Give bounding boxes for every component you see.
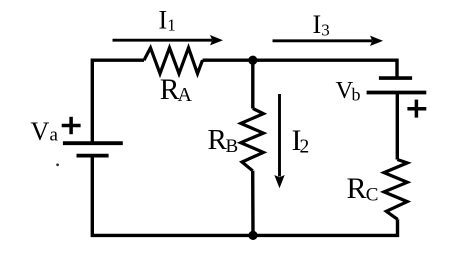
polarity + of V_a — [62, 117, 81, 134]
resistor R_A — [144, 48, 203, 74]
current arrow I2 — [274, 94, 284, 188]
wire: right vertical from V_b to R_C — [396, 93, 399, 160]
wire: top from R_A to right corner — [203, 60, 398, 78]
polarity + of V_b — [407, 100, 426, 118]
battery V_a negative plate (short) — [77, 154, 109, 158]
label I2 — [292, 124, 310, 157]
resistor R_C — [384, 160, 407, 220]
label V_a — [31, 117, 59, 146]
node A: top junction dot — [248, 56, 257, 65]
node B: bottom junction dot — [248, 231, 257, 240]
stray ink dot — [56, 163, 59, 166]
label R_C — [347, 172, 379, 206]
battery V_b positive plate (long) — [367, 91, 427, 95]
svg-text:b: b — [352, 84, 361, 104]
svg-text:1: 1 — [167, 16, 176, 35]
svg-text:I: I — [313, 10, 322, 39]
current arrow I1 — [113, 35, 224, 45]
svg-text:V: V — [31, 117, 50, 146]
wire: middle branch from R_B to node B — [251, 171, 255, 236]
battery V_b negative plate (short) — [379, 76, 412, 80]
current arrow I3 — [273, 36, 384, 46]
svg-text:2: 2 — [300, 136, 310, 157]
svg-text:A: A — [178, 84, 193, 106]
svg-text:R: R — [208, 124, 228, 156]
label I1 — [159, 5, 176, 34]
wire: left vertical below V_a + bottom wire — [92, 156, 397, 236]
svg-text:C: C — [366, 185, 379, 206]
svg-text:R: R — [347, 172, 367, 205]
wire: left vertical + top-left corner to R_A — [92, 60, 144, 143]
svg-text:B: B — [226, 136, 239, 157]
svg-text:a: a — [50, 125, 59, 146]
svg-text:I: I — [159, 5, 168, 34]
label R_B — [208, 124, 239, 157]
label I3 — [313, 10, 330, 39]
label R_A — [160, 74, 193, 106]
svg-text:3: 3 — [321, 21, 330, 40]
label V_b — [336, 77, 361, 104]
resistor R_B — [241, 109, 264, 171]
wire: middle branch from node A to R_B — [251, 60, 254, 108]
battery V_a positive plate (long) — [63, 141, 123, 145]
